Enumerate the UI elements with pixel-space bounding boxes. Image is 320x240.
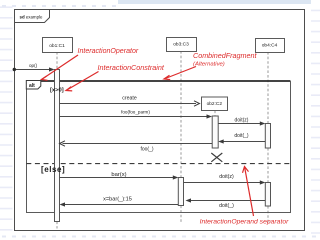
- svg-text:foo(_): foo(_): [140, 146, 153, 152]
- svg-text:InteractionOperand separator: InteractionOperand separator: [200, 218, 290, 225]
- svg-text:[else]: [else]: [41, 165, 65, 174]
- svg-text:(Alternative): (Alternative): [193, 61, 225, 67]
- svg-text:alt: alt: [29, 83, 35, 89]
- svg-text:doit(z): doit(z): [235, 117, 249, 123]
- svg-text:sd example: sd example: [20, 14, 43, 19]
- svg-text:op(): op(): [29, 63, 38, 68]
- svg-text:ob2:C2: ob2:C2: [207, 101, 223, 107]
- svg-text:InteractionOperator: InteractionOperator: [78, 48, 139, 55]
- svg-text:doit(_): doit(_): [234, 133, 249, 139]
- svg-text:[x>0]: [x>0]: [50, 88, 64, 94]
- svg-text:foo(foo_parm): foo(foo_parm): [121, 110, 150, 115]
- svg-text:doit(z): doit(z): [219, 174, 234, 180]
- svg-text:CombinedFragment: CombinedFragment: [193, 51, 258, 60]
- svg-text:x=bar(_):15: x=bar(_):15: [103, 196, 132, 202]
- svg-text:InteractionConstraint: InteractionConstraint: [98, 63, 165, 72]
- svg-text:create: create: [122, 96, 137, 102]
- svg-text:ob3:C3: ob3:C3: [173, 42, 189, 48]
- svg-text:doit(_): doit(_): [219, 203, 234, 209]
- svg-text:ob1:C1: ob1:C1: [49, 43, 65, 49]
- svg-text:bar(x): bar(x): [111, 172, 126, 178]
- svg-text:ob4:C4: ob4:C4: [262, 43, 278, 49]
